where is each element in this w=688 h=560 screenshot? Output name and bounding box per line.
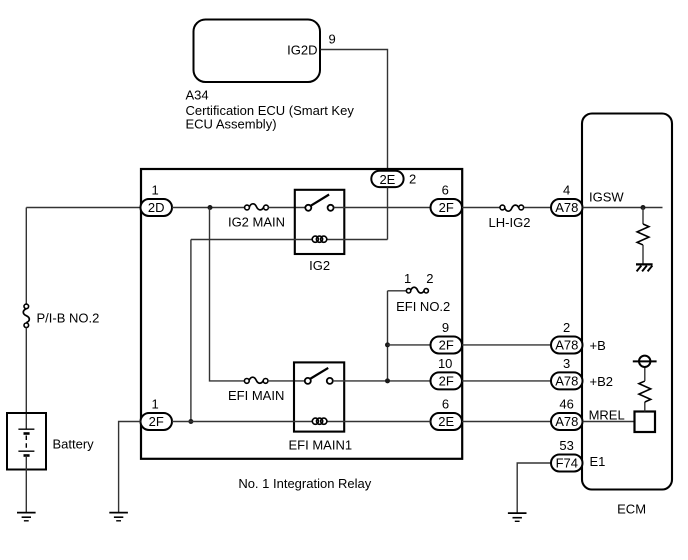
power terminal bar — [633, 360, 657, 362]
svg-text:1: 1 — [152, 182, 159, 197]
wire 2F(9) to A78(2) — [462, 344, 551, 346]
svg-text:Battery: Battery — [53, 437, 95, 452]
junction dot +B branch — [385, 342, 390, 347]
IG2 switch contact left — [305, 205, 311, 211]
relay IG2 box — [295, 190, 345, 254]
EFI MAIN1 coil — [312, 418, 327, 424]
svg-text:2F: 2F — [439, 338, 454, 353]
fuse LH-IG2 — [500, 205, 524, 210]
EFI MAIN1 switch contact left — [305, 378, 311, 384]
battery cell plate long 2 — [18, 450, 34, 452]
terminal A78 pin 46 — [551, 413, 583, 430]
svg-text:No. 1 Integration Relay: No. 1 Integration Relay — [238, 476, 371, 491]
box No.1 Integration Relay — [141, 169, 462, 459]
svg-text:1: 1 — [152, 396, 159, 411]
IG2 coil — [312, 236, 327, 242]
resistor IGSW pull-down — [637, 224, 649, 245]
connector box A34 Certification ECU — [194, 20, 321, 83]
terminal 2D — [141, 199, 173, 216]
svg-text:4: 4 — [563, 182, 570, 197]
battery cell plate short 2 — [24, 454, 30, 457]
terminal 2E (top) — [371, 171, 403, 187]
ground 2F(1) — [109, 513, 128, 521]
junction dot 2F(1) wire — [188, 419, 193, 424]
battery dashed link — [25, 436, 27, 451]
fuse EFI MAIN — [244, 379, 268, 384]
wire EFI MAIN1 switch to 2F(10) — [333, 380, 431, 382]
svg-text:53: 53 — [559, 438, 573, 453]
wire resistor to terminal circle — [644, 367, 646, 381]
wire 2D to IG2 MAIN fuse — [172, 207, 245, 209]
power terminal circle symbol — [639, 356, 650, 367]
svg-text:ECM: ECM — [617, 502, 646, 517]
svg-text:IGSW: IGSW — [589, 189, 624, 204]
svg-text:IG2: IG2 — [309, 258, 330, 273]
IG2 switch contact right — [328, 205, 334, 211]
svg-text:2: 2 — [563, 320, 570, 335]
wire 2F(6) to LH-IG2 — [462, 207, 500, 209]
wire IGSW internal — [583, 207, 663, 209]
svg-text:2E: 2E — [438, 414, 454, 429]
svg-text:P/I-B NO.2: P/I-B NO.2 — [37, 311, 100, 326]
svg-text:IG2 MAIN: IG2 MAIN — [228, 215, 285, 230]
svg-text:46: 46 — [559, 396, 573, 411]
svg-text:9: 9 — [329, 31, 336, 46]
terminal A78 pin 2 — [551, 337, 583, 354]
svg-text:3: 3 — [563, 356, 570, 371]
wire 2F(1) to ground — [119, 422, 141, 513]
svg-text:2: 2 — [426, 271, 433, 286]
svg-text:2E: 2E — [379, 172, 395, 187]
wire fuse to battery — [25, 328, 27, 429]
wire 2E(6) to A78(46) — [462, 421, 551, 423]
svg-text:6: 6 — [442, 182, 449, 197]
junction dot IGSW — [641, 205, 646, 210]
wire EFI NO.2 vertical branch — [387, 291, 389, 381]
terminal 2F pin 10 — [431, 372, 463, 389]
svg-text:2D: 2D — [148, 200, 165, 215]
ground battery — [17, 513, 36, 521]
IG2 switch arm — [310, 195, 329, 206]
svg-text:IG2D: IG2D — [287, 42, 317, 57]
terminal 2F pin 6 — [431, 199, 463, 216]
terminal F74 pin 53 — [551, 455, 583, 472]
terminal A78 pin 4 — [551, 199, 583, 216]
wire fuse to EFI MAIN1 relay — [268, 380, 305, 382]
EFI MAIN1 switch contact right — [327, 378, 333, 384]
relay coil load square MREL — [635, 412, 656, 433]
chassis ground IGSW — [636, 264, 653, 271]
wire IG2 switch to 2F(6) — [334, 207, 431, 209]
svg-text:A78: A78 — [555, 414, 578, 429]
svg-text:A78: A78 — [555, 338, 578, 353]
wire battery branch horizontal to 2D — [26, 207, 140, 209]
svg-text:A78: A78 — [555, 374, 578, 389]
svg-text:A34: A34 — [186, 88, 209, 103]
battery cell plate short 1 — [24, 432, 30, 435]
EFI MAIN1 switch arm — [310, 368, 328, 379]
terminal 2F pin 9 — [431, 337, 463, 354]
svg-text:A78: A78 — [555, 200, 578, 215]
svg-text:+B: +B — [590, 338, 606, 353]
ECM box — [582, 114, 672, 490]
wire main to EFI MAIN branch — [210, 208, 245, 381]
wire 2F(1) to EFI MAIN1 coil — [172, 421, 431, 423]
svg-text:2F: 2F — [439, 374, 454, 389]
svg-text:MREL: MREL — [589, 408, 625, 423]
resistor MREL — [639, 381, 651, 402]
svg-text:6: 6 — [442, 396, 449, 411]
terminal A78 pin 3 — [551, 372, 583, 389]
svg-text:1: 1 — [404, 271, 411, 286]
svg-text:EFI NO.2: EFI NO.2 — [396, 299, 450, 314]
fuse IG2 MAIN — [245, 205, 269, 210]
svg-text:2: 2 — [409, 172, 416, 187]
svg-text:9: 9 — [442, 320, 449, 335]
wire to 2F(9) — [388, 344, 431, 346]
wire vertical coil branch left — [190, 240, 192, 422]
wire MREL internal — [583, 421, 635, 423]
svg-text:2F: 2F — [149, 414, 164, 429]
svg-text:E1: E1 — [590, 454, 606, 469]
svg-text:LH-IG2: LH-IG2 — [489, 215, 531, 230]
svg-text:ECU Assembly): ECU Assembly) — [186, 116, 277, 131]
terminal 2E pin 6 — [431, 413, 463, 430]
wire resistor to chassis ground — [642, 245, 644, 264]
wire battery branch vertical — [25, 208, 27, 305]
wire IG2D to 2E — [321, 50, 388, 171]
wire dot to resistor — [642, 208, 644, 225]
wire 2E to IG2 coil — [387, 187, 389, 239]
ground E1 — [508, 513, 527, 521]
fuse P/I-B NO.2 — [24, 304, 29, 328]
relay EFI MAIN1 box — [294, 362, 344, 431]
svg-text:2F: 2F — [439, 200, 454, 215]
svg-text:10: 10 — [438, 356, 452, 371]
terminal 2F pin 1 (bottom left) — [141, 413, 173, 430]
junction dot main wire — [208, 205, 213, 210]
battery cell plate long 1 — [18, 428, 34, 430]
wire LH-IG2 to A78(4) — [524, 207, 551, 209]
svg-text:+B2: +B2 — [590, 374, 614, 389]
svg-text:EFI MAIN: EFI MAIN — [228, 388, 284, 403]
svg-text:EFI MAIN1: EFI MAIN1 — [289, 438, 353, 453]
fuse EFI NO.2 lead — [388, 290, 407, 292]
battery box — [7, 413, 46, 470]
wire E1 to ground — [517, 463, 551, 513]
wire fuse to IG2 relay — [268, 207, 305, 209]
wire IG2 coil line — [191, 239, 388, 241]
junction dot +B2 branch — [385, 378, 390, 383]
fuse EFI NO.2 — [406, 289, 428, 293]
wire 2F(10) to A78(3) — [462, 380, 551, 382]
wire battery to ground — [25, 456, 27, 513]
svg-text:F74: F74 — [556, 456, 578, 471]
wire square to resistor — [644, 402, 646, 412]
